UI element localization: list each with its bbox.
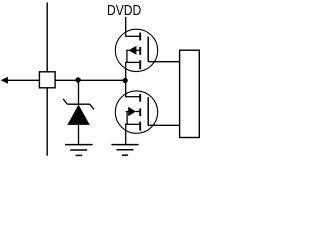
svg-text:DVDD: DVDD <box>107 3 141 19</box>
wire: DVDD to Q1 source <box>125 17 127 37</box>
wire: vertical bus through I/O cell <box>46 3 48 156</box>
node: zener junction <box>75 77 80 82</box>
wire: junction to zener cathode <box>78 80 80 104</box>
node: output junction <box>123 78 128 83</box>
driver block <box>180 50 200 137</box>
ground (zener) <box>65 145 93 156</box>
wire: Q2 gate to driver block <box>148 124 179 126</box>
wire: Q1 drain to output node <box>125 62 127 80</box>
Q2 drain stub <box>125 96 140 98</box>
Q1 drain stub <box>125 61 140 63</box>
Q2 gate bar <box>147 97 149 125</box>
wire: output net (horizontal) <box>7 79 126 81</box>
Q2 channel segments <box>139 94 141 131</box>
zener diode D1 (cathode bar with bent tails) <box>63 99 94 110</box>
Q2 body stub with NMOS arrow <box>126 111 129 113</box>
wire: Q2 source to ground <box>125 124 127 144</box>
I/O cell box <box>39 72 55 88</box>
wire: output node to Q2 drain <box>125 81 127 97</box>
Q1 channel segments <box>139 33 141 70</box>
transistor Q2 (NMOS, bottom) <box>115 91 157 133</box>
ground (Q2) <box>111 145 138 156</box>
output arrow (to pin) <box>1 77 8 84</box>
Q2 source stub <box>125 123 140 125</box>
wire: Q1 gate to driver block <box>148 61 179 63</box>
zener diode D1 anode triangle <box>67 105 90 125</box>
wire: zener anode to ground <box>78 125 80 144</box>
Q1 gate bar <box>147 37 149 62</box>
Q1 source stub <box>125 35 140 37</box>
transistor Q1 (PMOS, top) <box>115 29 157 71</box>
Q1 body stub with PMOS arrow <box>136 49 140 51</box>
